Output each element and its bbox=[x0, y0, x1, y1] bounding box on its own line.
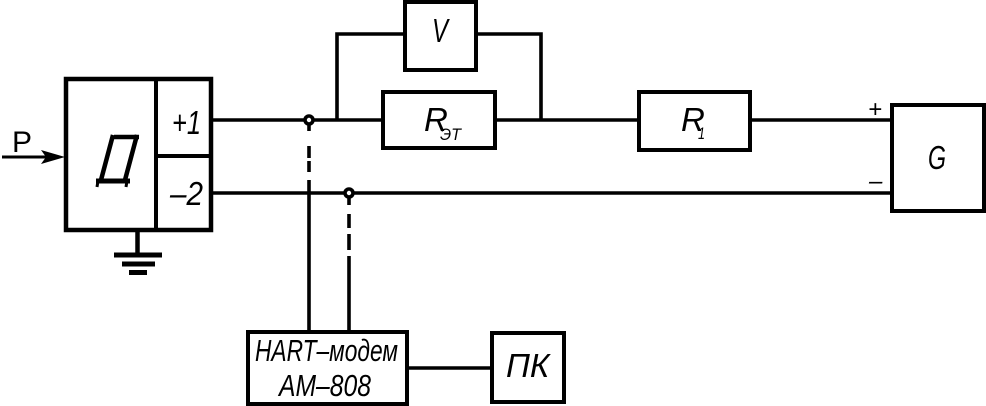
node junction 2 on bottom wire bbox=[345, 189, 353, 197]
wire voltmeter left branch bbox=[337, 34, 405, 120]
svg-text:P: P bbox=[12, 126, 32, 159]
ground bbox=[114, 230, 162, 273]
svg-text:+1: +1 bbox=[172, 104, 201, 141]
wire HART modem to PC bbox=[407, 366, 492, 370]
generator G box bbox=[892, 105, 984, 211]
resistor R_et box bbox=[383, 92, 495, 148]
resistor R1 box bbox=[639, 92, 750, 150]
svg-text:HART–модем: HART–модем bbox=[255, 333, 398, 368]
wire P arrowhead bbox=[41, 150, 65, 164]
wire dashed drop from junction 2 bbox=[347, 197, 351, 334]
svg-text:+: + bbox=[868, 96, 882, 123]
wire voltmeter right branch bbox=[476, 34, 541, 120]
svg-text:АМ–808: АМ–808 bbox=[277, 368, 371, 403]
svg-text:ПК: ПК bbox=[506, 347, 551, 384]
wire R_et to R1 bbox=[495, 118, 639, 122]
svg-text:–: – bbox=[868, 168, 883, 195]
node junction 1 on top wire bbox=[305, 116, 313, 124]
transducer D1 terminal divider bbox=[156, 154, 211, 158]
svg-text:–2: –2 bbox=[169, 175, 203, 212]
wire P input arrow line bbox=[2, 156, 46, 159]
voltmeter V box bbox=[405, 2, 476, 70]
HART modem AM-808 box bbox=[248, 332, 407, 404]
computer PC box bbox=[492, 333, 564, 402]
transducer D1 main box bbox=[66, 79, 211, 230]
svg-text:1: 1 bbox=[698, 124, 705, 143]
transducer D1 terminal column divider bbox=[154, 79, 158, 230]
svg-text:G: G bbox=[928, 139, 946, 176]
transducer D1 letter glyph bbox=[96, 135, 139, 187]
svg-text:ЭТ: ЭТ bbox=[440, 125, 463, 144]
wire +1 to R_et bbox=[211, 118, 383, 122]
wire dashed drop from junction 1 bbox=[307, 124, 311, 334]
wire -2 to G minus bbox=[211, 191, 892, 195]
svg-text:V: V bbox=[432, 12, 450, 49]
wire R1 to G plus bbox=[750, 118, 892, 122]
